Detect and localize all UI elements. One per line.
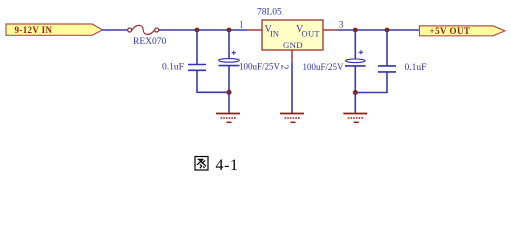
fuse F1 REX070 <box>128 25 167 47</box>
svg-text:100uF/25V: 100uF/25V <box>303 62 345 72</box>
wire GND pin to middle ground <box>291 63 293 113</box>
svg-text:OUT: OUT <box>302 29 321 39</box>
svg-text:3: 3 <box>339 20 344 30</box>
svg-text:1: 1 <box>239 20 244 30</box>
capacitor C4 0.1uF <box>378 63 426 73</box>
wire C2 top <box>228 30 230 59</box>
wire from 9-12V IN to fuse <box>102 29 128 31</box>
svg-text:REX070: REX070 <box>133 37 167 47</box>
wire C2 bottom to junction <box>228 66 230 93</box>
net label +5V OUT <box>420 26 506 36</box>
svg-text:+5V OUT: +5V OUT <box>430 26 471 36</box>
svg-text:9-12V IN: 9-12V IN <box>15 25 53 35</box>
svg-text:GND: GND <box>283 40 303 50</box>
ground (left) <box>216 114 240 123</box>
ground (middle) <box>280 114 304 123</box>
svg-text:0.1uF: 0.1uF <box>162 63 184 73</box>
net label 9-12V IN <box>6 24 103 35</box>
node junction at C2 top <box>227 28 232 33</box>
wire C1 top <box>196 30 198 65</box>
wire from fuse to regulator input <box>159 29 247 31</box>
node junction right ground <box>353 90 358 95</box>
svg-text:0.1uF: 0.1uF <box>405 63 427 73</box>
regulator U1 78L05 <box>257 8 323 51</box>
capacitor C3 100uF/25V (polarized) <box>303 50 366 72</box>
capacitor C2 100uF/25V (polarized) <box>219 51 281 72</box>
wire junction to right ground <box>354 93 356 114</box>
svg-text:2: 2 <box>279 65 290 70</box>
wire C3 bottom to junction <box>354 66 356 93</box>
pin 1 of U1 <box>247 29 262 31</box>
pin 2 (GND) of U1 <box>291 50 293 63</box>
svg-text:100uF/25V: 100uF/25V <box>239 61 281 71</box>
svg-text:4-1: 4-1 <box>216 157 239 174</box>
svg-text:IN: IN <box>270 29 279 39</box>
wire regulator output to +5V OUT <box>338 29 420 31</box>
ground (right) <box>343 114 367 123</box>
wire C3 top <box>354 30 356 59</box>
node junction left ground <box>227 90 232 95</box>
caption 图 4-1 <box>195 157 239 174</box>
wire junction to left ground <box>228 92 230 113</box>
node junction at C1 top <box>195 28 200 33</box>
wire C4 top <box>386 30 388 66</box>
svg-text:78L05: 78L05 <box>257 8 282 18</box>
node junction at C3 top <box>353 28 358 33</box>
capacitor C1 0.1uF <box>162 63 206 73</box>
node junction at C4 top <box>385 28 390 33</box>
pin 3 of U1 <box>323 29 338 31</box>
wire C1 bottom to junction <box>197 70 229 92</box>
wire C4 bottom to junction <box>355 72 387 93</box>
